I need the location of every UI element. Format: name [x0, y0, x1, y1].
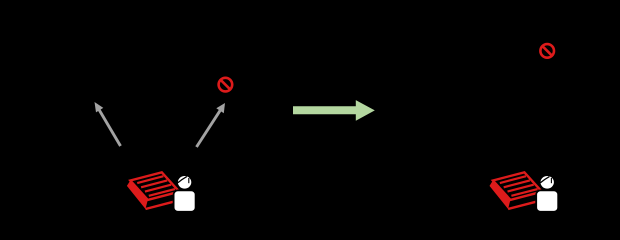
person ear crease — [188, 178, 190, 183]
person head — [540, 175, 555, 189]
person head — [177, 175, 192, 189]
person hair line — [540, 177, 549, 183]
person ear crease — [550, 178, 552, 183]
book top face outline — [130, 172, 179, 200]
person body — [536, 190, 558, 211]
person hair line — [178, 177, 187, 183]
book bottom edge — [508, 201, 539, 209]
green transform arrow (center) — [293, 100, 375, 121]
book top face outline — [493, 172, 542, 200]
book text line 4 — [149, 189, 175, 196]
book side band (left thick edge) — [127, 181, 148, 210]
right no-sign (prohibition symbol) — [540, 44, 554, 58]
right gray arrow (up-right toward no-sign) — [197, 103, 226, 147]
book text line 3 — [145, 185, 171, 192]
book text line 1 — [500, 176, 526, 183]
book side band (left thick edge) — [490, 181, 511, 210]
book text line 1 — [137, 176, 163, 183]
left gray arrow (up-left) — [95, 102, 121, 146]
book bottom edge — [146, 201, 178, 209]
book text line 2 — [504, 180, 530, 187]
right ledger icon (red book with person) — [490, 172, 559, 211]
person body — [174, 190, 196, 211]
book text line 3 — [508, 185, 534, 192]
book text line 2 — [141, 180, 167, 187]
left ledger icon (red book with person) — [127, 172, 196, 211]
left no-sign (prohibition symbol) — [219, 78, 233, 92]
book text line 4 — [511, 189, 537, 196]
